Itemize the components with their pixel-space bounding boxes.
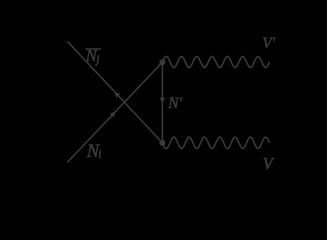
arrowhead on N_i line pointing up-right [110, 111, 116, 117]
arrowhead on Nbar_j line pointing up-left [114, 91, 120, 97]
svg-text:V′: V′ [262, 35, 275, 52]
arrowhead on internal N' line pointing down [160, 98, 165, 104]
wire: internal fermion propagator N' vertical between vertices [161, 62, 163, 143]
wire: bottom wavy boson line to V [162, 137, 269, 148]
node: top vertex dot [159, 59, 165, 65]
svg-text:N′: N′ [167, 95, 183, 112]
svg-text:i: i [98, 148, 101, 160]
node: bottom vertex dot [159, 140, 165, 146]
wire: incoming antifermion line Nbar_j from top-left to bottom vertex [67, 41, 162, 143]
wire: top wavy boson line to V' [162, 57, 269, 68]
wire: incoming fermion line N_i from bottom-left to top vertex [67, 62, 162, 162]
label Nbar_j overline [85, 48, 101, 49]
